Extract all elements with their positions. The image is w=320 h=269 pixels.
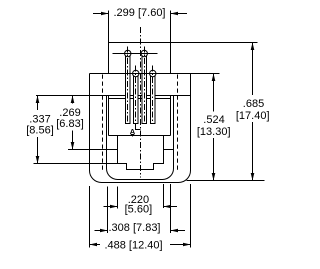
dim .685 top extension bbox=[171, 42, 258, 44]
face plate line y=95.5 bbox=[36, 95, 191, 97]
svg-text:[8.56]: [8.56] bbox=[26, 124, 54, 136]
pin 2 bar bbox=[134, 75, 139, 124]
dim .685 line with arrows bbox=[252, 43, 254, 96]
svg-text:[6.83]: [6.83] bbox=[56, 118, 84, 130]
dim .308 extension right bbox=[170, 184, 172, 233]
svg-text:A: A bbox=[130, 127, 136, 136]
pin 3 bar bbox=[142, 55, 147, 124]
dim .488 extension right bbox=[190, 184, 192, 248]
pin 2 leader hook to centerline bbox=[136, 124, 141, 130]
dim .308 extension left bbox=[107, 187, 109, 234]
dim .308 left arrow bbox=[95, 230, 108, 232]
dim .488 right arrow bbox=[170, 244, 191, 246]
pin 2 top circle bbox=[133, 70, 139, 76]
pin 4 top circle bbox=[150, 70, 156, 76]
svg-text:.308 [7.83]: .308 [7.83] bbox=[109, 222, 161, 234]
right bottom extension line bbox=[187, 180, 265, 182]
svg-text:.524: .524 bbox=[203, 114, 224, 126]
dim .524 top extension bbox=[191, 73, 220, 75]
body outer outline rounded bottom bbox=[90, 74, 191, 183]
pin 2 centerline bbox=[135, 66, 137, 124]
upper pin row line y=53.5 bbox=[113, 53, 158, 55]
sub-panel left vertical bbox=[108, 96, 110, 136]
dim .524 line with arrows bbox=[213, 74, 215, 112]
dim .220 right arrow bbox=[164, 206, 178, 208]
dim .488 extension left bbox=[89, 186, 91, 248]
dim .299 extension right bbox=[170, 11, 172, 43]
dim .220 extension left bbox=[117, 187, 119, 209]
svg-text:.299 [7.60]: .299 [7.60] bbox=[114, 7, 166, 19]
dim .220 extension right bbox=[163, 184, 165, 208]
pin 4 centerline bbox=[152, 66, 154, 124]
svg-text:[17.40]: [17.40] bbox=[236, 110, 270, 122]
pin 1 top circle bbox=[125, 50, 131, 56]
dim .488 left arrow bbox=[90, 244, 101, 246]
dim .299 left arrow bbox=[93, 13, 108, 15]
pin 4 bar bbox=[151, 75, 156, 124]
svg-text:[5.60]: [5.60] bbox=[125, 203, 153, 215]
pin 3 top circle bbox=[141, 50, 147, 56]
hidden dashed line left bbox=[102, 75, 104, 171]
dim .220 left arrow bbox=[104, 206, 118, 208]
hidden dashed line right bbox=[177, 75, 179, 171]
main vertical centerline bbox=[140, 27, 142, 178]
dim .299 extension left bbox=[108, 11, 110, 43]
pin 3 centerline bbox=[144, 47, 146, 124]
dim .299 right arrow bbox=[171, 13, 187, 15]
sub-panel top edge y=98.5 bbox=[109, 98, 171, 100]
pin 1 bar bbox=[126, 55, 131, 124]
top block outline bbox=[109, 43, 171, 74]
inner recess outline bbox=[107, 96, 174, 180]
dim .269 line with arrows bbox=[72, 96, 74, 104]
svg-text:[13.30]: [13.30] bbox=[197, 126, 231, 138]
svg-text:.488 [12.40]: .488 [12.40] bbox=[104, 239, 162, 251]
datum A triangle bbox=[130, 134, 134, 137]
sub-panel right vertical bbox=[170, 96, 172, 136]
dim .308 right arrow bbox=[171, 230, 186, 232]
svg-text:.685: .685 bbox=[243, 98, 264, 110]
step line y=73.5 full width bbox=[90, 73, 191, 75]
cavity with latch notch bbox=[118, 136, 164, 170]
dim .269 bottom extension bbox=[68, 149, 118, 151]
dim .337 line with arrows bbox=[37, 96, 39, 111]
ledge line right of cavity bbox=[164, 149, 174, 151]
cavity top line bbox=[109, 135, 171, 137]
dim .337 bottom extension bbox=[34, 163, 118, 165]
pin 1 centerline bbox=[127, 47, 129, 124]
